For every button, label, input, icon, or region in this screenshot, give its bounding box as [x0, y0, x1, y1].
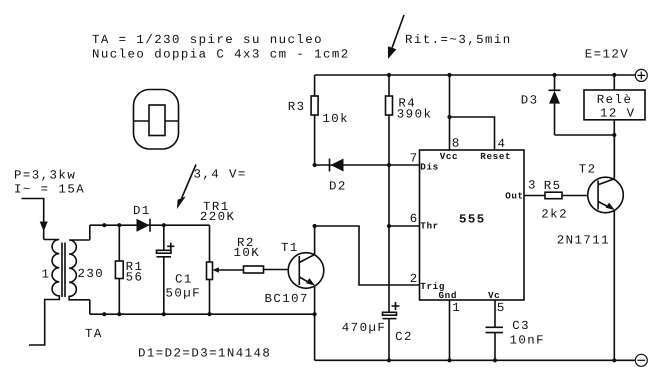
node dot R4 top — [387, 73, 391, 77]
wire pin6 stub — [389, 225, 420, 227]
wire secondary top lead — [89, 225, 91, 240]
svg-text:10nF: 10nF — [510, 333, 546, 347]
transformer TA primary winding — [29, 240, 59, 346]
svg-text:220K: 220K — [200, 210, 236, 224]
wire pin1 to ground rail — [449, 300, 451, 360]
svg-text:3: 3 — [528, 179, 537, 193]
svg-text:D3: D3 — [521, 94, 539, 108]
svg-text:1: 1 — [42, 268, 51, 282]
node dot C1 bottom — [162, 312, 166, 316]
transformer TA secondary winding — [69, 240, 90, 300]
svg-text:T2: T2 — [579, 163, 597, 177]
wire pin4 branch — [450, 117, 495, 150]
node dot thr junction — [387, 224, 391, 228]
wire bottom link to right rail — [314, 314, 316, 360]
svg-text:Dis: Dis — [420, 161, 439, 172]
svg-text:4: 4 — [498, 137, 507, 151]
svg-text:50µF: 50µF — [166, 286, 202, 300]
svg-text:230: 230 — [78, 267, 105, 281]
svg-text:Rit.=~3,5min: Rit.=~3,5min — [405, 33, 512, 47]
node dot relay top — [612, 73, 616, 77]
current direction arrow — [40, 222, 48, 232]
node dot C1 top — [162, 223, 166, 227]
svg-text:2k2: 2k2 — [541, 208, 568, 222]
diode D3 — [549, 75, 615, 135]
wire bottom rail — [315, 359, 636, 361]
terminal plus — [635, 69, 647, 81]
wire pin8 from rail — [449, 75, 451, 150]
svg-text:P=3,3kw: P=3,3kw — [14, 168, 76, 182]
svg-text:D2: D2 — [329, 180, 347, 194]
svg-text:C1: C1 — [175, 273, 193, 287]
node dot T1 collector branch — [313, 224, 317, 228]
svg-text:TA: TA — [85, 327, 103, 341]
node dot D3 top — [552, 73, 556, 77]
svg-text:3,4 V=: 3,4 V= — [194, 168, 247, 182]
transistor T2 — [588, 135, 624, 360]
core cross-section icon — [134, 90, 179, 150]
node dot pin8 branch — [447, 73, 451, 77]
svg-text:12 V: 12 V — [600, 107, 636, 121]
svg-text:555: 555 — [459, 213, 486, 227]
node dot on top rail — [102, 223, 106, 227]
wire pin3 out to R5 — [524, 195, 545, 197]
annotation arrow to top rail — [388, 15, 404, 59]
svg-text:Gnd: Gnd — [439, 290, 458, 301]
svg-text:7: 7 — [410, 151, 419, 165]
node dot C2 bottom — [387, 358, 391, 362]
svg-text:TA = 1/230 spire su nucleo: TA = 1/230 spire su nucleo — [92, 33, 323, 47]
svg-text:2N1711: 2N1711 — [557, 234, 610, 248]
svg-text:C2: C2 — [395, 330, 413, 344]
transistor T1 — [288, 226, 324, 314]
svg-text:T1: T1 — [281, 241, 299, 255]
node dot TR1 bottom — [207, 312, 211, 316]
wire secondary bottom lead — [89, 300, 91, 314]
svg-text:I~ = 15A: I~ = 15A — [14, 182, 85, 196]
annotation arrow to TR1 — [177, 165, 196, 210]
op-amp U1 555 box — [420, 150, 525, 300]
svg-text:Thr: Thr — [420, 221, 439, 232]
svg-text:56: 56 — [126, 271, 144, 285]
relay K1 — [584, 75, 645, 177]
svg-text:D1: D1 — [133, 204, 151, 218]
wire trigger branch — [315, 226, 420, 285]
capacitor C3 — [486, 327, 504, 360]
capacitor C2 — [383, 302, 400, 360]
svg-text:Nucleo doppia C 4x3 cm - 1cm2: Nucleo doppia C 4x3 cm - 1cm2 — [92, 48, 350, 62]
resistor R2 — [244, 266, 300, 273]
svg-text:Vc: Vc — [488, 290, 500, 301]
svg-text:8: 8 — [452, 137, 461, 151]
wire top rail — [315, 74, 636, 76]
resistor R5 — [545, 192, 598, 199]
trimmer TR1 — [207, 225, 244, 314]
node dot D2 left junction — [313, 163, 317, 167]
svg-text:2: 2 — [410, 272, 419, 286]
capacitor C1 — [157, 225, 175, 314]
wire left bottom rail — [90, 313, 315, 315]
svg-text:D1=D2=D3=1N4148: D1=D2=D3=1N4148 — [138, 347, 271, 361]
wire left top rail — [90, 224, 210, 226]
transformer TA core — [62, 243, 65, 298]
svg-text:1: 1 — [452, 301, 461, 315]
wire mains input — [22, 199, 44, 240]
node dot D3 relay junction — [612, 133, 616, 137]
diode D2 — [330, 159, 344, 172]
svg-text:390k: 390k — [397, 107, 433, 121]
resistor R4 — [386, 75, 393, 312]
node dot pin1 bottom — [447, 358, 451, 362]
node dot pin7 R4 junction — [387, 163, 391, 167]
svg-text:Relè: Relè — [597, 93, 633, 107]
resistor R1 — [115, 225, 123, 314]
node dot T2 emitter bottom — [612, 358, 616, 362]
terminal minus — [635, 354, 647, 366]
svg-text:R5: R5 — [544, 179, 562, 193]
svg-text:6: 6 — [410, 212, 419, 226]
svg-text:C3: C3 — [512, 319, 530, 333]
resistor R3 — [311, 75, 318, 165]
svg-text:Out: Out — [505, 191, 524, 202]
svg-text:10k: 10k — [322, 112, 349, 126]
svg-text:BC107: BC107 — [265, 292, 309, 306]
svg-text:470µF: 470µF — [342, 321, 386, 335]
svg-text:Reset: Reset — [480, 151, 511, 162]
svg-text:10K: 10K — [234, 246, 261, 260]
node dot C3 bottom — [493, 358, 497, 362]
node dot on bottom rail — [102, 312, 106, 316]
node dot R1 bottom — [117, 312, 121, 316]
node dot R1 top — [117, 223, 121, 227]
node dot pin8 pin4 branch — [447, 115, 451, 119]
svg-text:E=12V: E=12V — [585, 48, 629, 62]
wire pin5 stub — [494, 300, 496, 327]
diode D1 — [137, 219, 151, 232]
svg-text:Vcc: Vcc — [440, 151, 459, 162]
svg-text:5: 5 — [497, 301, 506, 315]
wire pin7 to D2 — [315, 164, 420, 166]
svg-text:R3: R3 — [288, 100, 306, 114]
node dot T1 emitter junction — [313, 312, 317, 316]
